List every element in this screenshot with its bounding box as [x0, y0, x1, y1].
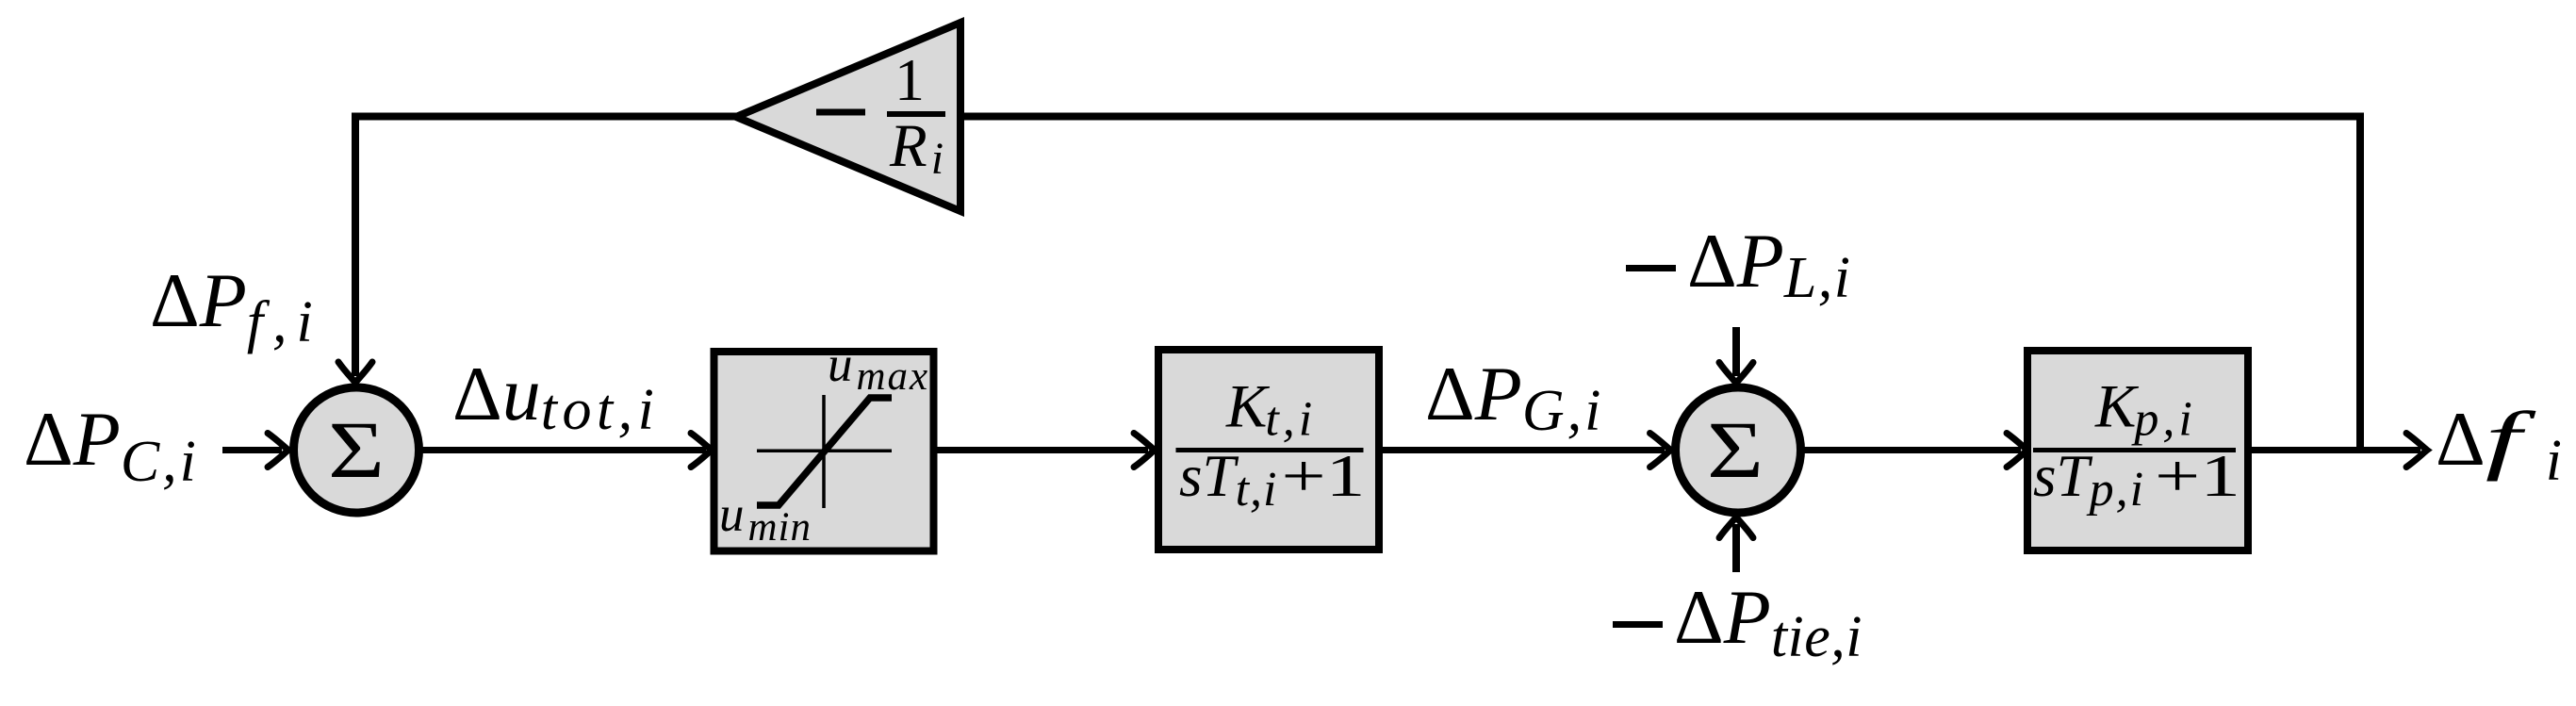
svg-text:Δfi: Δfi — [2436, 396, 2562, 493]
arrowhead into S1 left — [268, 434, 288, 468]
svg-text:ΔPL,i: ΔPL,i — [1687, 218, 1852, 310]
label -DPtie,i — [1613, 621, 1663, 628]
saturation curve — [757, 398, 892, 505]
gain triangle -1/Ri — [736, 23, 960, 211]
saturation axis vertical — [822, 395, 826, 508]
summing junction S2 — [1676, 387, 1801, 513]
summing junction S1 — [294, 387, 419, 513]
fraction bar turbine — [1176, 448, 1364, 452]
fraction bar power system — [2033, 448, 2236, 452]
label minus of -1/Ri — [816, 109, 865, 116]
svg-text:ΔPG,i: ΔPG,i — [1425, 351, 1603, 443]
arrowhead into saturation block — [691, 434, 712, 468]
arrowhead into turbine block — [1134, 434, 1155, 468]
arrowhead into S2 left — [1650, 434, 1671, 468]
wire saturation to turbine block — [934, 447, 1148, 453]
arrowhead output — [2406, 434, 2427, 468]
label -DPL,i — [1626, 265, 1676, 271]
svg-text:umax: umax — [828, 337, 929, 399]
svg-text:Δutot,i: Δutot,i — [452, 351, 659, 442]
svg-text:Σ: Σ — [328, 404, 385, 495]
wire tie-line into S2 from below — [1732, 524, 1740, 572]
wire output — [2252, 447, 2420, 453]
saturation block — [714, 352, 934, 551]
svg-text:ΔPtie,i: ΔPtie,i — [1674, 574, 1862, 669]
wire turbine to summing junction S2 — [1379, 447, 1665, 453]
saturation axis horizontal — [757, 450, 892, 453]
svg-text:Σ: Σ — [1707, 404, 1764, 495]
turbine block Kt/(sTt+1) — [1158, 350, 1379, 550]
arrowhead into S2 top — [1719, 363, 1753, 384]
power system block Kp/(sTp+1) — [2027, 351, 2248, 550]
wire S2 to power system block — [1800, 447, 2021, 453]
wire feedback drop into summing junction S1 — [352, 113, 359, 377]
wire input to S1 — [222, 447, 282, 453]
wire feedback right — [960, 117, 2360, 451]
wire load disturbance into S2 — [1732, 327, 1740, 376]
svg-text:ΔPC,i: ΔPC,i — [24, 396, 199, 494]
fraction bar of 1/Ri — [887, 111, 945, 117]
svg-text:ΔPf,i: ΔPf,i — [150, 257, 322, 354]
arrowhead into S1 top — [338, 362, 372, 383]
wire feedback top — [355, 113, 736, 121]
arrowhead into power system block — [2007, 434, 2027, 468]
arrowhead into S2 bottom — [1719, 517, 1753, 538]
wire S1 to saturation block — [418, 447, 706, 453]
svg-text:1: 1 — [894, 46, 925, 113]
